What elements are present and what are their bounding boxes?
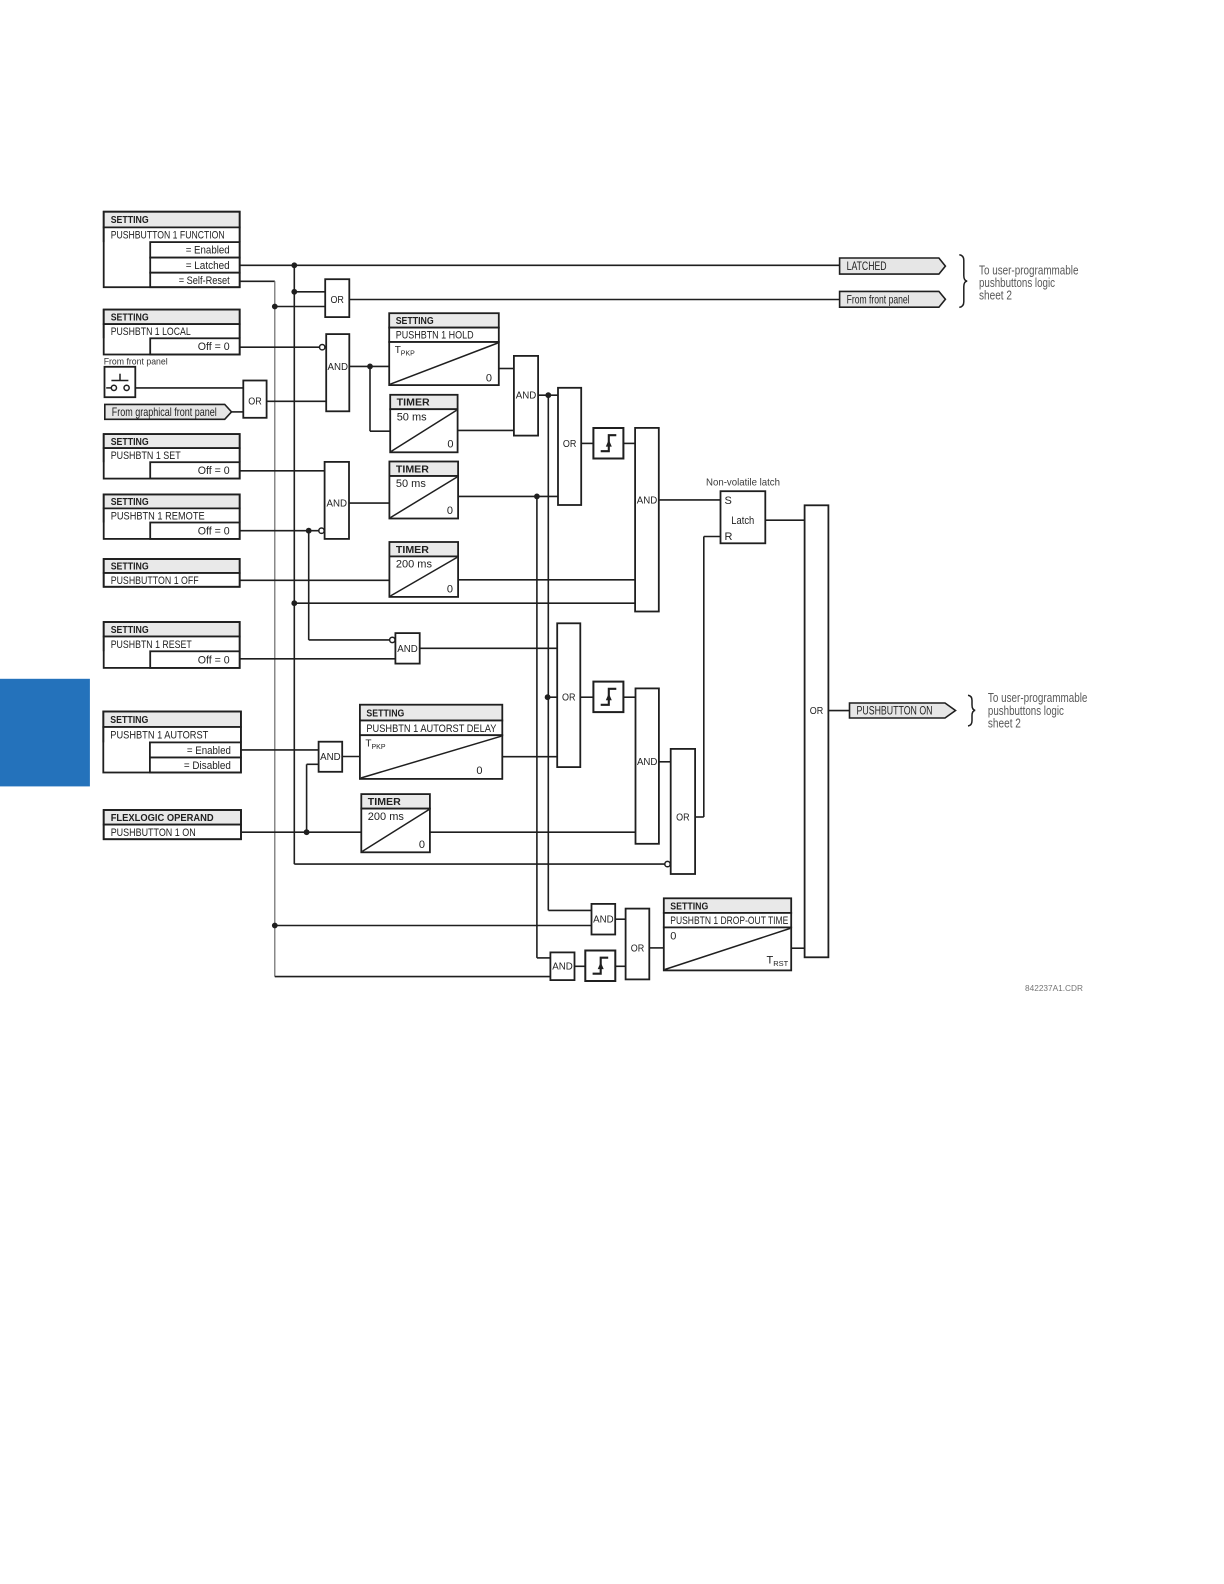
wire: AUTORST DELAY output to OR2 input 3 — [502, 756, 557, 758]
wire: PUSHBUTTON 1 ON operand to TIMER4 input — [241, 831, 361, 833]
svg-text:From front panel: From front panel — [847, 293, 910, 307]
wire: OR-OUT output to PUSHBUTTON ON arrow — [828, 710, 849, 712]
junction: bus x=294.3 / OR1 input 1 — [291, 289, 297, 295]
wire: AND-L output to PUSHBTN 1 HOLD timer — [349, 365, 389, 367]
junction: bus x=274.8 / OR1 input 2 — [272, 304, 278, 310]
svg-text:= Self-Reset: = Self-Reset — [179, 275, 230, 287]
wire: AND2 output to OR-R input 1 — [659, 761, 671, 763]
svg-text:SETTING: SETTING — [670, 900, 708, 912]
wire: OR1 input 2 — [275, 306, 325, 308]
svg-text:AND: AND — [637, 757, 658, 768]
svg-text:PUSHBTN 1 LOCAL: PUSHBTN 1 LOCAL — [111, 326, 191, 338]
wire: edge detector 1 to AND1 input 1 — [623, 442, 635, 444]
wire: PUSHBTN 1 RESET Off=0 to AND-C input 2 — [240, 658, 396, 660]
timer TIMER3 200 ms — [389, 542, 458, 597]
svg-text:Off = 0: Off = 0 — [198, 654, 230, 666]
timer TIMER4 200 ms — [361, 794, 430, 852]
svg-text:AND: AND — [327, 499, 348, 510]
or gate OR-OUT (pushbutton on) — [805, 505, 829, 957]
svg-text:PUSHBTN 1 REMOTE: PUSHBTN 1 REMOTE — [111, 510, 205, 522]
svg-text:Off = 0: Off = 0 — [198, 465, 230, 477]
svg-text:0: 0 — [476, 765, 482, 777]
input arrow: From graphical front panel — [105, 404, 232, 419]
svg-text:OR: OR — [330, 295, 344, 306]
wire: From-graphical-front-panel arrow to OR-FP input 2 — [232, 411, 244, 413]
svg-text:SETTING: SETTING — [111, 561, 149, 573]
svg-text:SETTING: SETTING — [396, 315, 434, 327]
svg-text:SETTING: SETTING — [111, 214, 149, 226]
svg-text:SETTING: SETTING — [366, 707, 404, 719]
wire: PUSHBTN 1 LOCAL Off=0 to AND-L inverted input — [240, 346, 320, 348]
wire: bus x=548.3 tap to OR2 input 2 — [548, 696, 558, 698]
wire: bus tap to AND4 input 1 — [548, 909, 591, 911]
note text: to user-programmable pushbuttons logic sheet 2 (top) — [979, 264, 1079, 303]
svg-text:FLEXLOGIC OPERAND: FLEXLOGIC OPERAND — [111, 812, 214, 824]
svg-text:= Disabled: = Disabled — [184, 760, 231, 772]
setting timer PUSHBTN 1 DROP-OUT TIME — [664, 898, 791, 970]
junction: bus x=274.8 / AND4 input 2 — [272, 923, 278, 929]
svg-text:= Latched: = Latched — [186, 260, 230, 272]
setting box PUSHBTN 1 LOCAL — [104, 310, 240, 355]
svg-text:From graphical front panel: From graphical front panel — [112, 405, 217, 419]
svg-text:AND: AND — [516, 391, 537, 402]
wire: PUSHBUTTON 1 FUNCTION = Latched to LATCHED arrow — [240, 264, 840, 266]
junction: TIMER2 output branch — [534, 494, 540, 500]
wire: PUSHBTN 1 SET Off=0 to AND-B input 1 — [240, 470, 325, 472]
wire: PUSHBTN 1 HOLD output to AND-A input 1 — [499, 368, 514, 370]
wire: = Self-Reset row to vertical bus — [240, 280, 275, 282]
junction: Latched line / bus x=294.3 — [291, 262, 297, 268]
brace to sheet-2 note (top) — [959, 255, 967, 308]
svg-text:AND: AND — [320, 752, 341, 763]
svg-text:= Enabled: = Enabled — [187, 745, 231, 757]
svg-text:AND: AND — [637, 495, 658, 506]
wire: Self-Reset bus to AND4 input 2 — [275, 925, 592, 927]
wire: OR2 output to edge detector 2 — [580, 696, 593, 698]
or gate OR3 (drop-out) — [626, 909, 650, 980]
or gate OR-A — [558, 388, 581, 505]
inverted input bubble of OR-R — [665, 861, 670, 866]
wire: vertical bus x=548.3 from AND-A output — [547, 395, 549, 910]
svg-text:0: 0 — [670, 931, 676, 943]
inverted input bubble of AND-B — [319, 528, 324, 533]
wire: AND-A output to OR-A input 1 — [538, 394, 558, 396]
and gate AND2 (reset path) — [636, 688, 659, 843]
svg-text:OR: OR — [810, 706, 824, 717]
wire: pushbutton contact to OR-FP input 1 — [129, 387, 243, 389]
timer TIMER1 50 ms — [390, 395, 457, 453]
wire: AND1 output to latch S input — [659, 499, 721, 501]
svg-text:PUSHBUTTON 1 OFF: PUSHBUTTON 1 OFF — [111, 575, 199, 587]
and gate AND-B (set/remote) — [325, 462, 349, 539]
svg-text:LATCHED: LATCHED — [847, 259, 887, 273]
inverted input bubble of AND-L — [320, 345, 325, 350]
or gate OR2 (reset sources) — [557, 623, 580, 767]
svg-text:200 ms: 200 ms — [368, 811, 405, 823]
output arrow PUSHBUTTON ON — [850, 703, 956, 718]
wire: PUSHBTN 1 AUTORST =Enabled to AND3 input 1 — [241, 749, 319, 751]
svg-text:PUSHBTN 1 AUTORST: PUSHBTN 1 AUTORST — [110, 730, 208, 742]
output arrow From front panel — [840, 291, 946, 307]
wire: vertical from REMOTE net down to AND-C inverted input — [308, 531, 310, 640]
svg-text:SETTING: SETTING — [111, 624, 149, 636]
setting box PUSHBUTTON 1 OFF — [104, 559, 240, 587]
wire: branch down to TIMER1 input — [369, 366, 371, 431]
wire: vertical bus x=294.3 (Latched net) — [293, 265, 295, 864]
wire: bus x=536.9 to AND5 input 1 — [537, 957, 551, 959]
blue page-margin tab — [0, 679, 90, 787]
svg-text:0: 0 — [447, 438, 453, 450]
wire: vertical bus x=536.9 from TIMER2 output — [536, 496, 538, 958]
and gate AND3 (autoreset) — [319, 742, 343, 772]
svg-text:SETTING: SETTING — [111, 496, 149, 508]
setting box PUSHBUTTON 1 FUNCTION — [104, 212, 240, 288]
wire: Latched net to AND1 input 3 — [294, 602, 635, 604]
svg-text:= Enabled: = Enabled — [186, 245, 230, 257]
svg-text:OR: OR — [562, 693, 576, 704]
svg-text:PUSHBUTTON 1 FUNCTION: PUSHBUTTON 1 FUNCTION — [111, 230, 225, 242]
wire: AND-B output to TIMER2 input — [349, 502, 389, 504]
svg-text:Non-volatile latch: Non-volatile latch — [706, 477, 780, 489]
svg-text:PUSHBTN 1 RESET: PUSHBTN 1 RESET — [111, 639, 192, 651]
wire: OR1 output to From-front-panel arrow — [349, 299, 839, 301]
wire: TIMER1 50ms output to AND-A input 2 — [458, 429, 514, 431]
wire: latch output to OR-OUT input 1 — [765, 519, 804, 521]
wire: Latched net to OR-R inverted input 2 — [294, 863, 665, 865]
wire: edge detector 3 to OR3 input 2 — [615, 965, 625, 967]
svg-text:50 ms: 50 ms — [396, 478, 426, 490]
note text: to user-programmable pushbuttons logic sheet 2 (bottom) — [988, 691, 1088, 730]
svg-text:sheet 2: sheet 2 — [988, 717, 1021, 731]
flexlogic operand box PUSHBUTTON 1 ON — [104, 810, 241, 839]
and gate AND5 (drop-out reset) — [550, 952, 574, 980]
svg-text:842237A1.CDR: 842237A1.CDR — [1025, 983, 1083, 993]
svg-text:PUSHBTN 1 SET: PUSHBTN 1 SET — [111, 450, 181, 462]
svg-text:sheet 2: sheet 2 — [979, 289, 1012, 303]
svg-text:PUSHBUTTON 1 ON: PUSHBUTTON 1 ON — [111, 827, 196, 839]
svg-text:AND: AND — [328, 362, 349, 373]
wire: AND3 output to AUTORST DELAY timer input — [342, 756, 360, 758]
and gate AND1 (set path) — [635, 428, 659, 612]
and gate AND-A (hold) — [514, 356, 538, 436]
timer TIMER2 50 ms — [389, 462, 458, 519]
brace to sheet-2 note (bottom) — [968, 695, 975, 726]
svg-text:0: 0 — [447, 505, 453, 517]
svg-text:PUSHBUTTON ON: PUSHBUTTON ON — [857, 704, 933, 718]
svg-text:TIMER: TIMER — [396, 544, 429, 556]
or gate OR1 (latched/self-reset) — [325, 279, 349, 317]
svg-text:R: R — [725, 531, 733, 543]
svg-text:TIMER: TIMER — [397, 397, 430, 409]
wire: TIMER3 200ms output to AND1 input 2 — [458, 579, 635, 581]
svg-text:S: S — [725, 495, 732, 507]
svg-text:OR: OR — [563, 439, 577, 450]
svg-text:PUSHBTN 1 AUTORST DELAY: PUSHBTN 1 AUTORST DELAY — [366, 723, 497, 735]
svg-text:OR: OR — [631, 943, 645, 954]
wire: edge detector 2 to AND2 input 1 — [624, 696, 636, 698]
junction: AND-A output branch — [545, 392, 551, 398]
output arrow LATCHED — [840, 258, 946, 274]
positive edge detector 2 — [593, 682, 623, 713]
svg-text:Off = 0: Off = 0 — [198, 341, 230, 353]
and gate AND4 (drop-out set) — [592, 904, 616, 935]
wire: PUSHBUTTON 1 OFF to TIMER3 input — [240, 579, 390, 581]
wire: TIMER4 200ms output to AND2 input 2 — [430, 831, 636, 833]
or gate OR-FP (front panel sources) — [243, 381, 266, 418]
svg-text:Latch: Latch — [731, 515, 754, 527]
wire: OR-FP output to AND-L input 2 — [267, 400, 327, 402]
junction: REMOTE line branch — [306, 528, 312, 534]
junction: PUSHBUTTON 1 ON line branch — [304, 829, 310, 835]
svg-text:0: 0 — [447, 584, 453, 596]
svg-text:OR: OR — [676, 812, 690, 823]
junction: bus x=548.3 / OR2 input 2 — [545, 694, 551, 700]
and gate AND-L (local) — [326, 334, 349, 411]
wire: OR-R output up to latch R input — [695, 816, 704, 818]
wire: DROP-OUT TIME output to OR-OUT input 2 — [791, 947, 804, 949]
wire: OR-A output to edge detector 1 — [581, 442, 593, 444]
setting box PUSHBTN 1 AUTORST — [103, 712, 241, 773]
svg-text:200 ms: 200 ms — [396, 559, 433, 571]
svg-text:AND: AND — [593, 915, 614, 926]
wire: AND4 output to OR3 input 1 — [615, 918, 625, 920]
and gate AND-C (off/reset) — [395, 633, 419, 664]
junction: AND-L output branch — [367, 364, 373, 370]
setting timer PUSHBTN 1 HOLD — [389, 313, 499, 385]
wire: FLEXLOGIC PUSHBUTTON 1 ON branch up to AND3 input 2 — [307, 763, 319, 765]
svg-text:SETTING: SETTING — [111, 312, 149, 324]
svg-text:AND: AND — [397, 644, 418, 655]
svg-text:TIMER: TIMER — [396, 464, 429, 476]
wire: AND5 output to edge detector 3 — [575, 965, 586, 967]
non-volatile latch — [706, 477, 780, 544]
or gate OR-R (latch reset) — [671, 749, 695, 874]
svg-text:0: 0 — [419, 839, 425, 851]
setting timer PUSHBTN 1 AUTORST DELAY — [360, 705, 502, 779]
wire: Self-Reset bus bottom to AND5 input 2 — [275, 976, 551, 978]
wire: TIMER2 50ms output to OR-A input 2 — [458, 495, 558, 497]
setting box PUSHBTN 1 REMOTE — [104, 494, 240, 539]
svg-text:OR: OR — [248, 397, 262, 408]
inverted input bubble of AND-C — [390, 637, 395, 642]
svg-text:Off = 0: Off = 0 — [198, 526, 230, 538]
svg-text:50 ms: 50 ms — [397, 412, 427, 424]
setting box PUSHBTN 1 RESET — [104, 622, 240, 668]
positive edge detector 3 — [585, 951, 615, 982]
wire: AND-C output to OR2 input 1 — [420, 647, 558, 649]
wire: vertical bus x=274.8 (Self-Reset net) — [274, 281, 276, 976]
wire: PUSHBTN 1 REMOTE Off=0 to AND-B inverted input 2 — [240, 530, 319, 532]
junction: bus x=294.3 / AND1 input 3 — [291, 600, 297, 606]
positive edge detector 1 — [593, 428, 623, 459]
svg-text:SETTING: SETTING — [111, 436, 149, 448]
setting box PUSHBTN 1 SET — [104, 434, 240, 479]
pushbutton contact symbol (front panel) — [105, 367, 136, 397]
svg-text:0: 0 — [486, 372, 492, 384]
svg-text:PUSHBTN 1 HOLD: PUSHBTN 1 HOLD — [396, 330, 474, 342]
wire: OR3 output to DROP-OUT TIME timer input — [649, 947, 664, 949]
svg-text:PUSHBTN 1 DROP-OUT TIME: PUSHBTN 1 DROP-OUT TIME — [670, 915, 788, 927]
wire: OR1 input 1 — [294, 291, 325, 293]
svg-text:AND: AND — [552, 962, 573, 973]
svg-text:TIMER: TIMER — [368, 796, 401, 808]
svg-text:SETTING: SETTING — [110, 714, 148, 726]
